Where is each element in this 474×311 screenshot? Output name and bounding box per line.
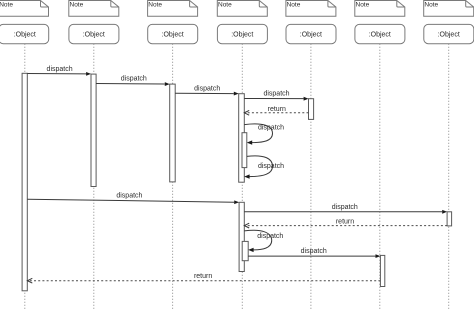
svg-text:Note: Note [70,2,84,9]
svg-text::Object: :Object [162,31,184,38]
svg-text::Object: :Object [300,31,322,38]
svg-text:dispatch: dispatch [263,90,289,97]
svg-text:dispatch: dispatch [116,193,142,200]
svg-text:dispatch: dispatch [121,75,147,82]
svg-text:dispatch: dispatch [332,204,358,211]
svg-text:Note: Note [356,2,370,9]
svg-text:return: return [336,219,354,226]
svg-text:dispatch: dispatch [258,163,284,170]
svg-text::Object: :Object [83,31,105,38]
svg-text:Note: Note [148,2,162,9]
svg-text:Note: Note [218,2,232,9]
svg-text:dispatch: dispatch [194,86,220,93]
svg-text::Object: :Object [369,31,391,38]
svg-text:return: return [194,273,212,280]
svg-text::Object: :Object [14,31,36,38]
svg-text:dispatch: dispatch [47,66,73,73]
svg-text:Note: Note [424,2,438,9]
svg-text:dispatch: dispatch [257,233,283,240]
svg-text:return: return [268,106,286,113]
svg-text:Note: Note [0,2,13,9]
svg-text:dispatch: dispatch [258,125,284,132]
svg-text:dispatch: dispatch [301,248,327,255]
svg-text:Note: Note [287,2,301,9]
svg-text::Object: :Object [438,31,460,38]
svg-text::Object: :Object [231,31,253,38]
